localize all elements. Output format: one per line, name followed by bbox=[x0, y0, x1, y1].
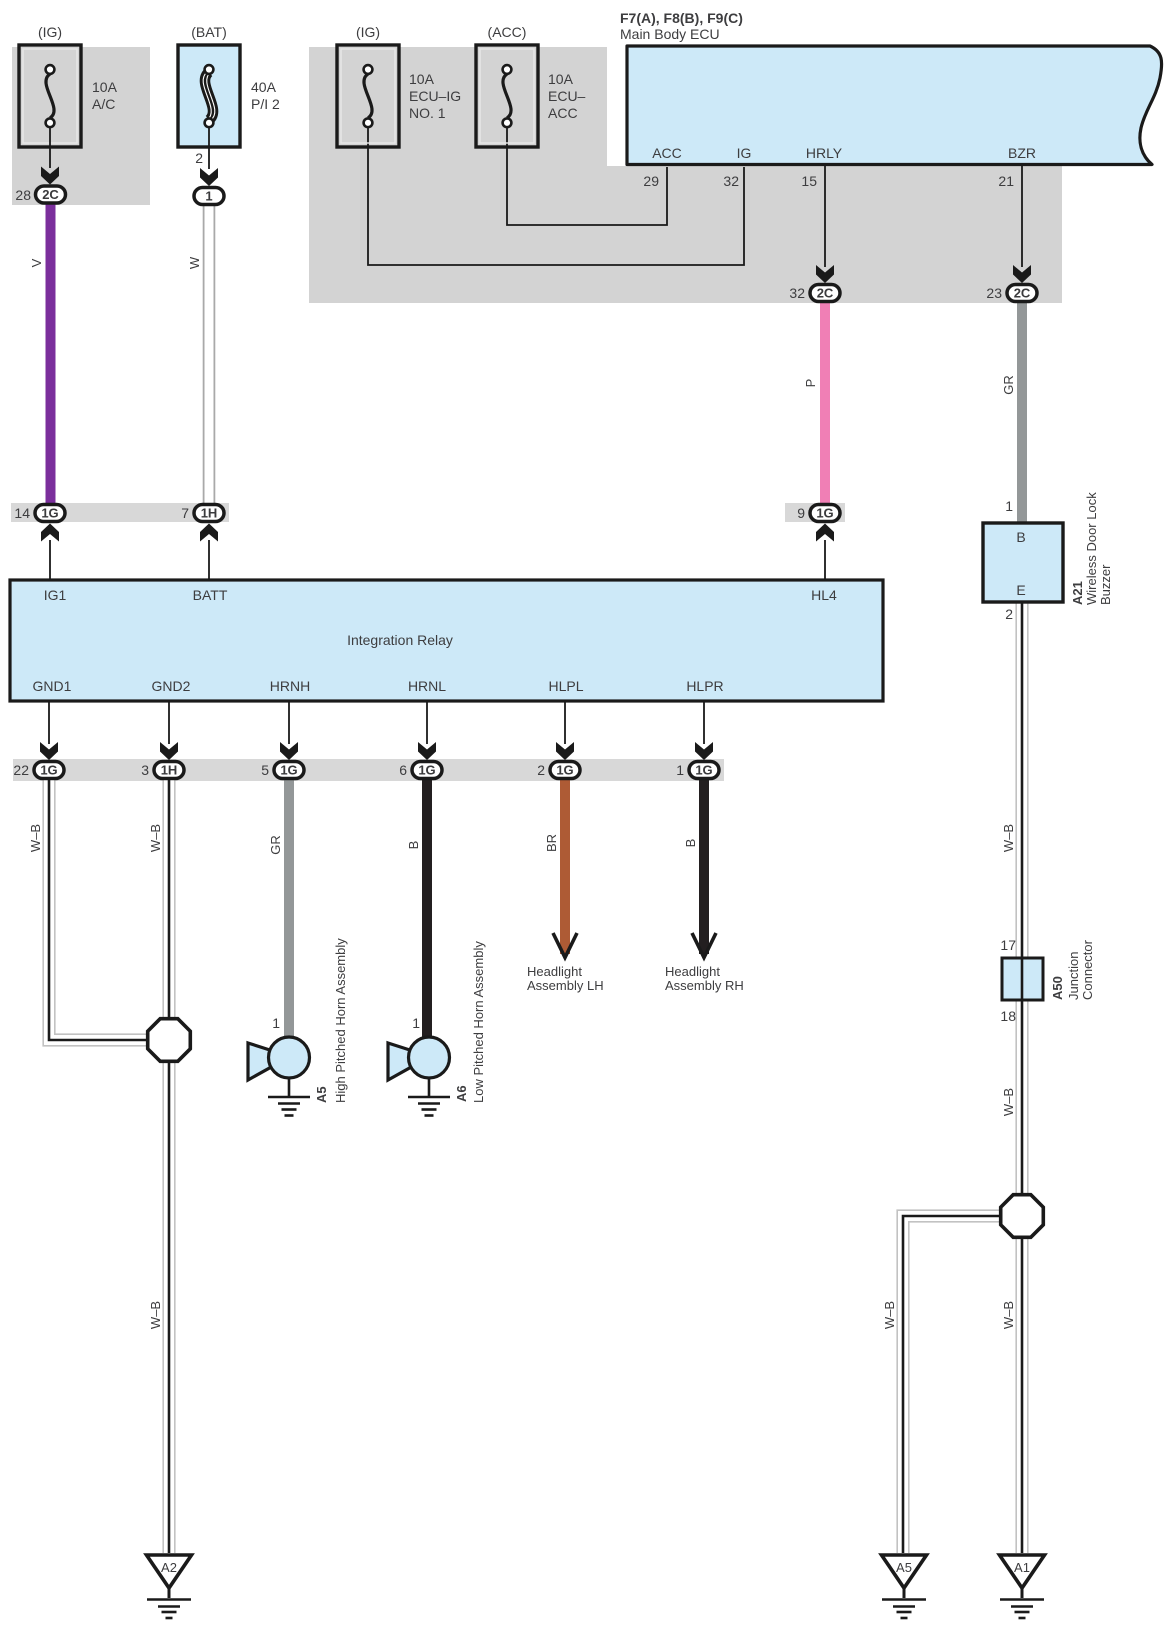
svg-text:(BAT): (BAT) bbox=[191, 24, 227, 40]
wire W-B GND2 to ground A2 bbox=[162, 780, 175, 1553]
shaded harness area left bbox=[12, 47, 150, 205]
svg-text:W–B: W–B bbox=[148, 824, 163, 852]
label A6 Low Pitched Horn Assembly bbox=[454, 941, 486, 1103]
wire W-B GND1 to junction bbox=[49, 780, 169, 1040]
wire HRNL pin down bbox=[426, 701, 428, 744]
svg-text:Connector: Connector bbox=[1080, 939, 1095, 1000]
svg-text:10A: 10A bbox=[92, 79, 118, 95]
svg-text:B: B bbox=[683, 839, 698, 848]
svg-text:14: 14 bbox=[14, 505, 30, 521]
svg-text:ECU–IG: ECU–IG bbox=[409, 88, 461, 104]
svg-text:1G: 1G bbox=[40, 763, 57, 778]
shaded harness area center bbox=[309, 47, 1062, 303]
arrow up into 1G bbox=[41, 524, 59, 542]
svg-text:1G: 1G bbox=[556, 763, 573, 778]
svg-text:Assembly LH: Assembly LH bbox=[527, 978, 604, 993]
svg-text:5: 5 bbox=[261, 762, 269, 778]
svg-text:1: 1 bbox=[272, 1015, 280, 1031]
svg-text:22: 22 bbox=[13, 762, 29, 778]
fuse F4 10A ECU-ACC bbox=[476, 45, 538, 147]
svg-text:2: 2 bbox=[1005, 606, 1013, 622]
svg-text:Assembly RH: Assembly RH bbox=[665, 978, 744, 993]
wire GND1 pin down bbox=[48, 701, 50, 744]
svg-text:1: 1 bbox=[1005, 498, 1013, 514]
fuse F1 10A A/C bbox=[19, 45, 81, 168]
wire BATT pin up bbox=[208, 540, 210, 580]
arrow up into 1H bbox=[200, 524, 218, 542]
horn A6 low pitched bbox=[388, 1037, 450, 1116]
svg-text:1G: 1G bbox=[41, 506, 58, 521]
label A5 High Pitched Horn Assembly bbox=[314, 938, 348, 1103]
svg-text:1: 1 bbox=[205, 189, 212, 204]
wire BR to headlight LH bbox=[560, 780, 570, 954]
svg-text:1H: 1H bbox=[201, 506, 218, 521]
connector oval 2C pin 23 bbox=[1007, 285, 1037, 302]
svg-text:A1: A1 bbox=[1014, 1560, 1030, 1575]
wire GR to high pitched horn bbox=[284, 780, 294, 1037]
wire GND2 pin down bbox=[168, 701, 170, 744]
connector strip 1G (HL4) bbox=[785, 503, 845, 522]
label A50 Junction Connector bbox=[1050, 939, 1095, 1000]
svg-text:HRNL: HRNL bbox=[408, 678, 446, 694]
svg-text:BZR: BZR bbox=[1008, 145, 1036, 161]
svg-text:(IG): (IG) bbox=[356, 24, 380, 40]
svg-text:(ACC): (ACC) bbox=[488, 24, 527, 40]
wire HL4 pin up bbox=[824, 540, 826, 580]
arrowhead headlight LH bbox=[553, 933, 577, 958]
connector strip 1G/1H bbox=[11, 503, 229, 522]
arrow down into 1G (HLPR) bbox=[695, 742, 713, 760]
svg-text:High Pitched Horn Assembly: High Pitched Horn Assembly bbox=[333, 938, 348, 1103]
svg-text:A5: A5 bbox=[314, 1086, 329, 1103]
ground A5 bbox=[882, 1555, 927, 1618]
svg-text:10A: 10A bbox=[548, 71, 574, 87]
svg-text:HRLY: HRLY bbox=[806, 145, 843, 161]
wire P pink bbox=[820, 302, 830, 504]
wire HLPL pin down bbox=[564, 701, 566, 744]
arrow down into 1G (HRNL) bbox=[418, 742, 436, 760]
wire V purple bbox=[46, 202, 56, 504]
wireless door lock buzzer A21 bbox=[983, 523, 1063, 602]
ground A2 bbox=[147, 1555, 192, 1618]
svg-text:F7(A), F8(B), F9(C): F7(A), F8(B), F9(C) bbox=[620, 10, 743, 26]
connector oval 1G pin 9 bbox=[810, 505, 840, 522]
connector oval 1H pin 3 bbox=[154, 762, 184, 779]
fuse F3 10A ECU-IG NO.1 bbox=[337, 45, 399, 147]
svg-text:1G: 1G bbox=[280, 763, 297, 778]
svg-text:32: 32 bbox=[723, 173, 739, 189]
svg-text:1G: 1G bbox=[816, 506, 833, 521]
wire W-B buzzer to ground A1 bbox=[1015, 601, 1028, 1553]
svg-text:1G: 1G bbox=[695, 763, 712, 778]
main body ECU box U1 bbox=[627, 46, 1162, 165]
wire IG1 pin up bbox=[49, 540, 51, 580]
svg-text:NO. 1: NO. 1 bbox=[409, 105, 446, 121]
svg-text:32: 32 bbox=[789, 285, 805, 301]
label 10A ECU-ACC bbox=[548, 71, 586, 121]
svg-text:ACC: ACC bbox=[548, 105, 578, 121]
svg-text:HLPL: HLPL bbox=[548, 678, 583, 694]
svg-text:Wireless Door Lock: Wireless Door Lock bbox=[1084, 492, 1099, 605]
svg-text:A50: A50 bbox=[1050, 976, 1065, 1000]
svg-text:W–B: W–B bbox=[1001, 824, 1016, 852]
connector oval 1G pin 1 bbox=[689, 762, 719, 779]
svg-text:2: 2 bbox=[537, 762, 545, 778]
svg-text:BATT: BATT bbox=[193, 587, 228, 603]
svg-text:GND1: GND1 bbox=[33, 678, 72, 694]
svg-text:7: 7 bbox=[181, 505, 189, 521]
svg-text:W–B: W–B bbox=[882, 1301, 897, 1329]
svg-text:ECU–: ECU– bbox=[548, 88, 586, 104]
arrow up into 1G (HL4) bbox=[816, 524, 834, 542]
svg-text:1G: 1G bbox=[418, 763, 435, 778]
label 10A ECU-IG NO. 1 bbox=[409, 71, 461, 121]
connector oval 1G pin 22 bbox=[34, 762, 64, 779]
svg-text:Buzzer: Buzzer bbox=[1098, 564, 1113, 605]
label 10A A/C bbox=[92, 79, 118, 112]
fuse F2 40A P/I 2 fusible link bbox=[178, 45, 240, 169]
svg-text:ACC: ACC bbox=[652, 145, 682, 161]
arrow down into 1H (GND2) bbox=[160, 742, 178, 760]
connector oval 1G pin 5 bbox=[274, 762, 304, 779]
svg-text:A5: A5 bbox=[896, 1560, 912, 1575]
svg-text:A21: A21 bbox=[1070, 581, 1085, 605]
wire core through junction A50 bbox=[1021, 958, 1024, 1000]
svg-text:GND2: GND2 bbox=[152, 678, 191, 694]
svg-text:21: 21 bbox=[998, 173, 1014, 189]
svg-text:A6: A6 bbox=[454, 1085, 469, 1102]
svg-text:28: 28 bbox=[15, 187, 31, 203]
svg-text:3: 3 bbox=[141, 762, 149, 778]
connector oval 1H pin 7 bbox=[194, 505, 224, 522]
wire GR gray to buzzer bbox=[1017, 302, 1027, 524]
svg-text:23: 23 bbox=[986, 285, 1002, 301]
svg-text:1: 1 bbox=[676, 762, 684, 778]
svg-text:Integration Relay: Integration Relay bbox=[347, 632, 453, 648]
svg-text:W–B: W–B bbox=[28, 824, 43, 852]
svg-text:18: 18 bbox=[1000, 1008, 1016, 1024]
connector oval 1G pin 2 bbox=[550, 762, 580, 779]
svg-text:B: B bbox=[1016, 529, 1025, 545]
svg-text:1: 1 bbox=[412, 1015, 420, 1031]
connector oval 1G pin 6 bbox=[412, 762, 442, 779]
svg-text:B: B bbox=[406, 841, 421, 850]
connector oval 1G pin 14 bbox=[35, 505, 65, 522]
wire BZR pin 21 down bbox=[1021, 166, 1023, 267]
svg-text:W–B: W–B bbox=[1001, 1301, 1016, 1329]
svg-text:9: 9 bbox=[797, 505, 805, 521]
svg-text:17: 17 bbox=[1000, 937, 1016, 953]
svg-text:P/I 2: P/I 2 bbox=[251, 96, 280, 112]
svg-text:W: W bbox=[187, 256, 202, 269]
junction connector A50 bbox=[1002, 958, 1043, 1000]
arrow into oval 1 bbox=[200, 168, 218, 186]
svg-text:Headlight: Headlight bbox=[527, 964, 582, 979]
svg-text:P: P bbox=[803, 379, 818, 388]
label A21 Wireless Door Lock Buzzer bbox=[1070, 492, 1113, 605]
wire B to headlight RH bbox=[699, 780, 709, 954]
wire W-B branch to ground A5 bbox=[903, 1216, 1022, 1553]
arrow down into 1G (HLPL) bbox=[556, 742, 574, 760]
label 40A P/I 2 bbox=[251, 79, 280, 112]
wire W white double from battery fuse bbox=[203, 205, 216, 504]
svg-text:W–B: W–B bbox=[1001, 1088, 1016, 1116]
junction octagon left bbox=[148, 1019, 191, 1062]
svg-text:Headlight: Headlight bbox=[665, 964, 720, 979]
svg-text:IG1: IG1 bbox=[44, 587, 67, 603]
arrow down into 1G (GND1) bbox=[40, 742, 58, 760]
svg-text:15: 15 bbox=[801, 173, 817, 189]
svg-text:Main Body ECU: Main Body ECU bbox=[620, 26, 720, 42]
svg-text:Low Pitched Horn Assembly: Low Pitched Horn Assembly bbox=[471, 941, 486, 1103]
svg-text:6: 6 bbox=[399, 762, 407, 778]
svg-text:A/C: A/C bbox=[92, 96, 115, 112]
svg-text:1H: 1H bbox=[161, 763, 178, 778]
svg-text:IG: IG bbox=[737, 145, 752, 161]
svg-text:2C: 2C bbox=[1014, 286, 1031, 301]
arrow down into 1G (HRNH) bbox=[280, 742, 298, 760]
ground A1 bbox=[1000, 1555, 1045, 1618]
wire HRLY pin 15 down bbox=[824, 166, 826, 267]
svg-text:2: 2 bbox=[195, 150, 203, 166]
connector oval 2C pin 28 bbox=[36, 186, 66, 203]
svg-text:W–B: W–B bbox=[148, 1301, 163, 1329]
junction octagon right bbox=[1001, 1195, 1044, 1238]
svg-text:HL4: HL4 bbox=[811, 587, 837, 603]
horn A5 high pitched bbox=[248, 1037, 310, 1116]
svg-text:E: E bbox=[1016, 582, 1025, 598]
svg-text:2C: 2C bbox=[817, 286, 834, 301]
integration relay box bbox=[10, 580, 883, 701]
connector strip bottom row bbox=[13, 759, 724, 781]
arrow into 2C (BZR) bbox=[1013, 265, 1031, 283]
arrow into 2C bbox=[41, 167, 59, 185]
connector oval 1 bbox=[194, 188, 224, 205]
svg-text:10A: 10A bbox=[409, 71, 435, 87]
wire B to low pitched horn bbox=[422, 780, 432, 1037]
arrowhead headlight RH bbox=[692, 933, 716, 958]
wire fuse ECU-IG to ECU pin 32 bbox=[368, 126, 744, 265]
svg-text:GR: GR bbox=[1001, 375, 1016, 395]
wire fuse ECU-ACC to ECU pin 29 bbox=[507, 126, 667, 225]
svg-text:V: V bbox=[29, 258, 44, 267]
svg-text:29: 29 bbox=[643, 173, 659, 189]
wire HRNH pin down bbox=[288, 701, 290, 744]
svg-text:40A: 40A bbox=[251, 79, 277, 95]
svg-text:HLPR: HLPR bbox=[686, 678, 723, 694]
svg-text:(IG): (IG) bbox=[38, 24, 62, 40]
svg-text:BR: BR bbox=[544, 834, 559, 852]
svg-text:HRNH: HRNH bbox=[270, 678, 310, 694]
svg-text:2C: 2C bbox=[42, 187, 59, 202]
connector oval 2C pin 32 bbox=[810, 285, 840, 302]
svg-text:GR: GR bbox=[268, 835, 283, 855]
svg-text:A2: A2 bbox=[161, 1560, 177, 1575]
svg-text:Junction: Junction bbox=[1066, 952, 1081, 1000]
wire HLPR pin down bbox=[703, 701, 705, 744]
arrow into 2C (HRLY) bbox=[816, 265, 834, 283]
